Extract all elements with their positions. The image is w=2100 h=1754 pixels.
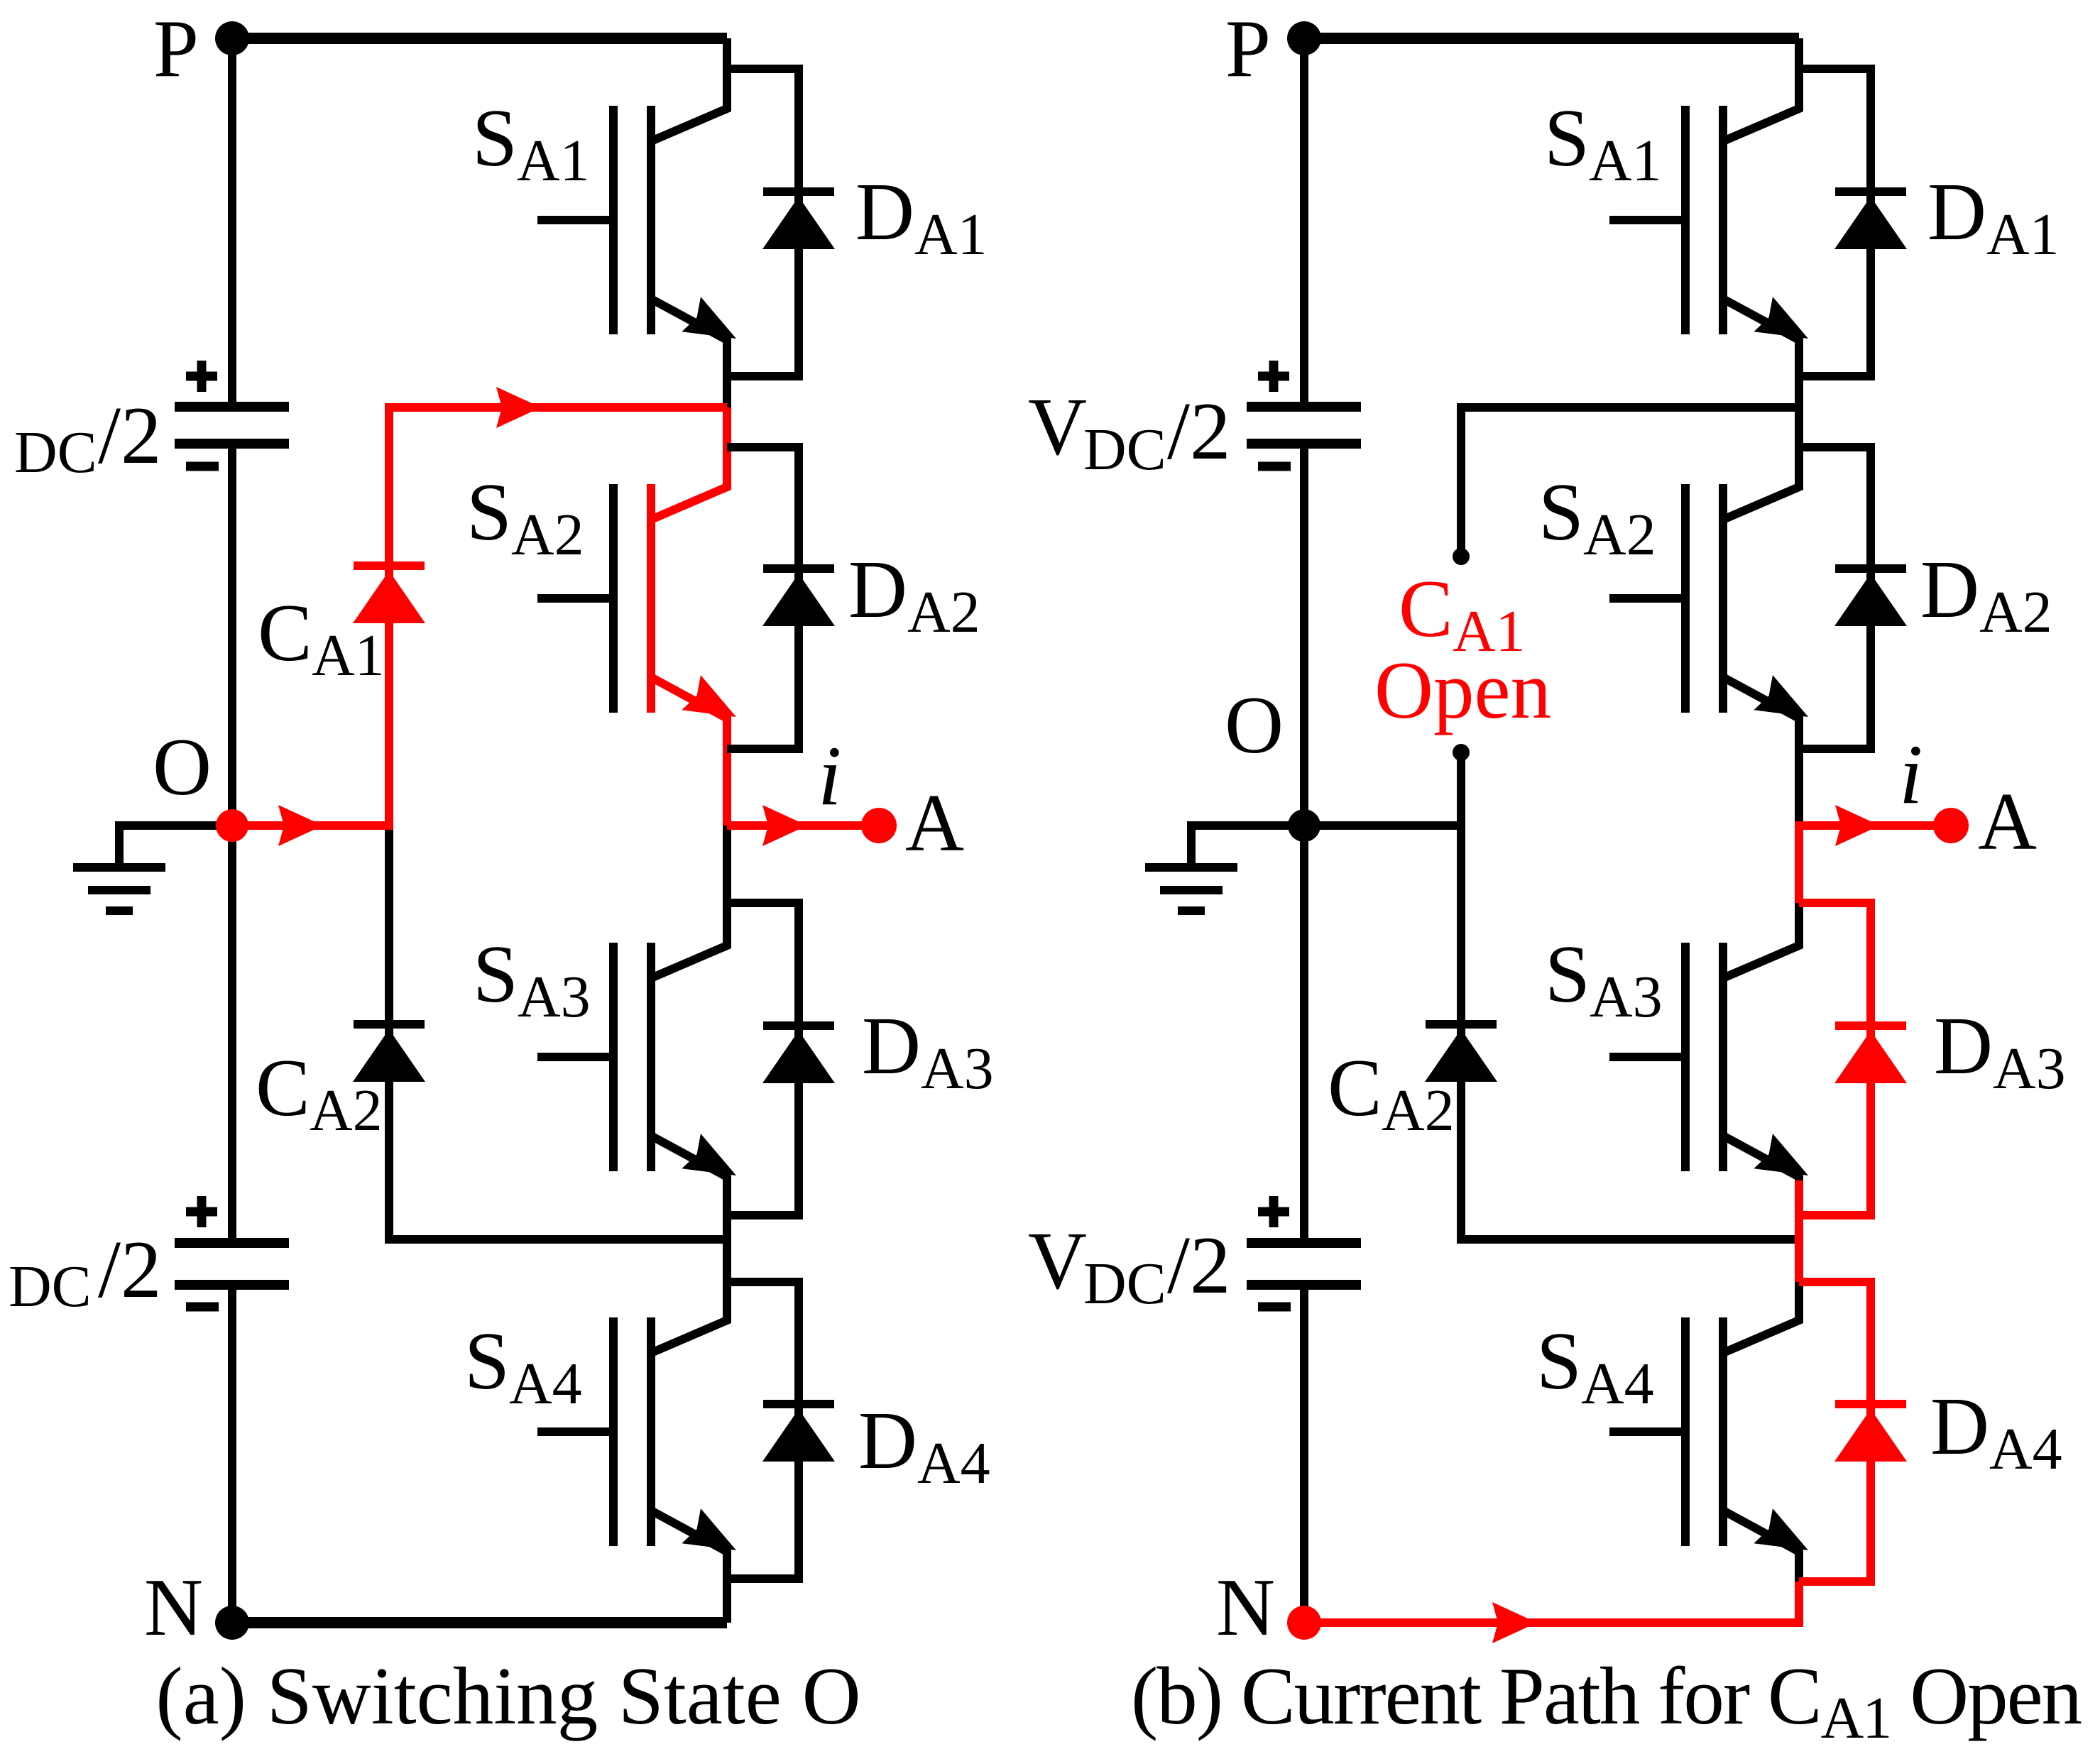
svg-text:P: P <box>1225 4 1271 94</box>
diode D_A1 <box>1799 69 1907 376</box>
svg-text:DC: DC <box>9 1254 92 1320</box>
svg-text:A4: A4 <box>1989 1416 2062 1482</box>
transistor S_A4 <box>537 1244 736 1623</box>
svg-text:A4: A4 <box>1581 1351 1654 1417</box>
svg-text:Open: Open <box>1374 645 1551 735</box>
node O dot <box>216 809 248 842</box>
svg-text:P: P <box>153 4 199 94</box>
svg-text:S: S <box>1544 93 1590 183</box>
label S_A4 <box>464 1316 582 1417</box>
clamp diode C_A2 <box>353 826 425 1244</box>
transistor S_A1 <box>1609 38 1808 407</box>
svg-text:D: D <box>862 1001 921 1091</box>
svg-text:(b) Current Path for CA1 Open: (b) Current Path for CA1 Open <box>1131 1651 2082 1751</box>
svg-text:A3: A3 <box>518 964 591 1030</box>
label D_A1 <box>1927 167 2060 268</box>
sub-figure (b): Current Path for C_A1 Open <box>1028 4 2066 1652</box>
label C_A1 <box>258 588 385 689</box>
svg-text:/2: /2 <box>98 390 161 481</box>
svg-text:A1: A1 <box>517 128 590 194</box>
caption (b) Current Path for C_A1 Open <box>1131 1651 2082 1751</box>
svg-text:D: D <box>855 167 914 257</box>
label S_A3 <box>473 929 591 1030</box>
svg-text:/2: /2 <box>98 1224 161 1315</box>
label VDC/2 upper <box>1028 382 1230 483</box>
node A <box>1933 777 2037 867</box>
svg-text:A2: A2 <box>907 579 980 645</box>
svg-text:DC: DC <box>1083 417 1166 483</box>
svg-text:C: C <box>1328 1043 1382 1133</box>
node N <box>1216 1562 1321 1652</box>
wire red current path O through C_A1 to S_A2 collector <box>232 387 727 846</box>
transistor S_A2 <box>1609 407 1808 826</box>
node P <box>1225 4 1321 94</box>
transistor S_A2 <box>537 407 736 826</box>
svg-text:A2: A2 <box>1382 1078 1455 1144</box>
svg-text:C: C <box>1399 564 1453 654</box>
svg-text:D: D <box>858 1396 917 1486</box>
clamp diode C_A1 (red, conducting) <box>353 566 425 623</box>
svg-text:C: C <box>258 588 312 678</box>
diode D_A4 <box>727 1282 835 1579</box>
svg-text:N: N <box>144 1562 203 1652</box>
wire C_A2 anode to S_A3/S_A4 junction <box>1461 1235 1799 1244</box>
node O <box>153 722 212 812</box>
svg-text:C: C <box>256 1043 310 1133</box>
diode D_A4 <box>1799 1282 1907 1582</box>
label D_A2 <box>1920 544 2052 645</box>
label S_A2 <box>1538 467 1656 568</box>
transistor S_A3 <box>537 826 736 1244</box>
label C_A2 <box>1328 1043 1455 1144</box>
svg-text:(a) Switching State O: (a) Switching State O <box>155 1651 860 1741</box>
svg-text:S: S <box>472 93 518 183</box>
wire bottom rail N to S_A4 emitter <box>232 1617 727 1628</box>
capacitor VDC/2 upper <box>175 361 289 466</box>
node O dot <box>1288 809 1320 842</box>
wire red D_A3 top to node A with output <box>1799 805 1951 903</box>
label C_A2 <box>256 1043 383 1144</box>
node N <box>144 1562 249 1652</box>
svg-text:DC: DC <box>14 420 97 486</box>
svg-text:A3: A3 <box>921 1036 994 1102</box>
label S_A2 <box>466 467 584 568</box>
svg-text:S: S <box>1536 1316 1582 1406</box>
label D_A4 <box>858 1396 990 1496</box>
wire red output to node A <box>727 805 879 846</box>
wire O to clamp branch <box>1304 821 1461 830</box>
svg-text:O: O <box>153 722 212 812</box>
svg-text:DC: DC <box>1083 1251 1166 1317</box>
svg-text:i: i <box>818 728 841 823</box>
svg-text:D: D <box>848 544 907 635</box>
label i <box>1899 727 1923 821</box>
wire red S_A3 emitter to S_A4 collector segment <box>1795 1180 1803 1282</box>
label D_A3 <box>1934 1001 2066 1102</box>
diode D_A3 <box>727 903 835 1215</box>
svg-text:A1: A1 <box>914 202 988 268</box>
diode D_A1 <box>727 69 835 376</box>
wire top rail P to S_A1 collector <box>232 33 727 44</box>
transistor S_A4 <box>1609 1244 1808 1623</box>
svg-text:S: S <box>466 467 512 557</box>
label S_A4 <box>1536 1316 1654 1417</box>
svg-text:D: D <box>1920 544 1979 635</box>
label S_A1 <box>1544 93 1662 194</box>
wire top rail P to S_A1 collector <box>1304 33 1799 44</box>
svg-text:D: D <box>1930 1381 1989 1471</box>
wire C_A2 anode to S_A3/S_A4 junction <box>389 1235 727 1244</box>
svg-text:A2: A2 <box>1979 579 2052 645</box>
svg-text:N: N <box>1216 1562 1275 1652</box>
svg-text:V: V <box>1028 382 1087 472</box>
capacitor VDC/2 upper <box>1247 361 1361 466</box>
label C_A1 Open (red) <box>1374 564 1551 735</box>
ground <box>73 826 232 911</box>
svg-text:D: D <box>1934 1001 1993 1091</box>
label D_A3 <box>862 1001 994 1102</box>
transistor S_A1 <box>537 38 736 407</box>
svg-text:A2: A2 <box>1583 502 1656 568</box>
diode D_A2 <box>1799 447 1907 749</box>
node O <box>1225 680 1284 770</box>
svg-text:A: A <box>1978 777 2037 867</box>
wire S_A1/S_A2 junction to open C_A1 terminal <box>1453 407 1799 565</box>
svg-text:/2: /2 <box>1167 386 1230 476</box>
clamp diode C_A2 <box>1425 826 1497 1244</box>
label i <box>818 728 841 823</box>
transistor S_A3 <box>1609 826 1808 1244</box>
svg-text:/2: /2 <box>1167 1220 1230 1310</box>
svg-text:A2: A2 <box>310 1078 383 1144</box>
svg-text:S: S <box>464 1316 510 1406</box>
wire left DC rail <box>1300 38 1308 1623</box>
ground <box>1145 826 1304 911</box>
label D_A1 <box>855 167 988 268</box>
diode D_A2 <box>727 447 835 749</box>
svg-text:S: S <box>1538 467 1584 557</box>
capacitor VDC/2 lower <box>175 1196 289 1307</box>
label DC/2 lower <box>9 1224 161 1320</box>
node A <box>861 778 964 868</box>
caption (a) Switching State O <box>155 1651 860 1741</box>
svg-text:S: S <box>473 929 518 1019</box>
wire red current path N to D_A4 branch <box>1304 1582 1799 1643</box>
svg-text:D: D <box>1927 167 1986 257</box>
node open C_A1 lower terminal <box>1453 744 1470 826</box>
svg-text:A1: A1 <box>1986 202 2060 268</box>
label S_A3 <box>1545 929 1663 1030</box>
label D_A2 <box>848 544 980 645</box>
svg-text:A4: A4 <box>509 1351 582 1417</box>
svg-text:A3: A3 <box>1590 964 1663 1030</box>
capacitor VDC/2 lower <box>1247 1196 1361 1307</box>
svg-text:A: A <box>905 778 964 868</box>
wire left DC rail <box>228 38 236 1623</box>
svg-text:O: O <box>1225 680 1284 770</box>
label S_A1 <box>472 93 590 194</box>
node P <box>153 4 249 94</box>
svg-text:S: S <box>1545 929 1590 1019</box>
label VDC/2 lower <box>1028 1216 1230 1317</box>
svg-text:i: i <box>1899 727 1923 821</box>
label D_A4 <box>1930 1381 2062 1482</box>
svg-text:A2: A2 <box>511 502 584 568</box>
label DC/2 upper <box>14 390 161 486</box>
svg-text:A4: A4 <box>917 1430 990 1496</box>
svg-text:A1: A1 <box>1589 128 1662 194</box>
svg-text:V: V <box>1028 1216 1087 1306</box>
svg-text:A1: A1 <box>312 623 385 689</box>
diode D_A3 <box>1799 903 1907 1215</box>
svg-text:A3: A3 <box>1993 1036 2066 1102</box>
sub-figure (a): Switching State O <box>9 4 994 1652</box>
